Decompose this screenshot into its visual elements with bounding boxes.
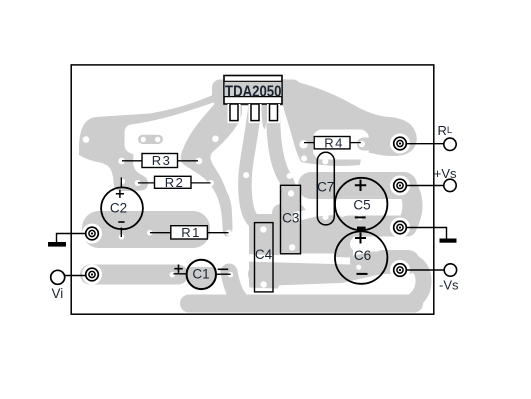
- upper-right pour mass with R4 region: [283, 79, 417, 166]
- -Vs pad: [390, 260, 410, 280]
- solder bar between C5 and C6: [357, 227, 366, 232]
- copper pour traces: [79, 79, 424, 304]
- wire RL: [407, 143, 444, 145]
- trace finger leg3 down to C3: [273, 106, 291, 195]
- capacitor C4: [255, 223, 274, 292]
- R4 left pad notch: [299, 140, 307, 148]
- hump behind TDA2050: [212, 80, 301, 107]
- svg-text:C6: C6: [354, 248, 371, 263]
- terminal RL: [444, 138, 456, 150]
- gnd-right pad: [390, 218, 410, 238]
- -Vs band (slanted): [260, 262, 408, 274]
- left gnd pad: [82, 224, 102, 244]
- wire gnd left: [57, 234, 87, 243]
- trace finger leg2 down to C4: [245, 106, 261, 228]
- svg-text:C7: C7: [317, 180, 334, 195]
- right connector -Vs/bottom: [412, 262, 424, 302]
- svg-text:C3: C3: [282, 210, 299, 225]
- riser right of C1: [229, 272, 243, 302]
- wire Vi: [65, 275, 86, 277]
- middle blob R1 row: [82, 211, 210, 248]
- capacitor C3: [281, 185, 301, 254]
- capacitor C1: [174, 260, 231, 289]
- white clearance channels: [244, 130, 384, 295]
- Z1 region C3-bottom / C4-right: [272, 204, 306, 254]
- wire +Vs: [407, 185, 444, 187]
- terminal +Vs: [444, 179, 456, 191]
- trace blob A upper-left with jumper cutout: [79, 93, 222, 192]
- terminal -Vs: [444, 264, 456, 276]
- right connector +Vs/gnd: [407, 186, 413, 226]
- gnd band: [338, 216, 417, 237]
- svg-text:R3: R3: [152, 153, 171, 168]
- resistor R3: [122, 153, 198, 168]
- capacitor C5: [335, 178, 387, 230]
- RL pad: [390, 134, 410, 154]
- channel inside C6 top: [350, 237, 384, 252]
- svg-text:-Vs: -Vs: [439, 278, 459, 293]
- +Vs pad: [390, 176, 410, 196]
- terminal Vi: [51, 270, 65, 284]
- svg-text:C4: C4: [255, 247, 273, 262]
- svg-text:C5: C5: [353, 197, 370, 212]
- svg-text:TDA2050: TDA2050: [225, 83, 282, 100]
- svg-text:C1: C1: [192, 267, 209, 282]
- TDA2050 IC: [224, 76, 282, 124]
- channel inside C5: [334, 200, 384, 216]
- Vi pad: [82, 265, 102, 285]
- svg-text:R4: R4: [324, 135, 343, 150]
- C6 left interior link: [334, 228, 353, 262]
- wire -Vs: [407, 269, 445, 271]
- svg-text:+Vs: +Vs: [434, 166, 457, 181]
- svg-text:R1: R1: [181, 225, 200, 240]
- bottom band: [189, 295, 414, 313]
- capacitor C2: [101, 178, 143, 238]
- slanted channel under Z1: [244, 254, 350, 265]
- slanted channel above bottom band: [246, 288, 348, 295]
- resistor R1: [150, 225, 229, 240]
- board outline: [71, 65, 434, 314]
- svg-text:RL: RL: [438, 123, 453, 138]
- wire gnd right: [407, 228, 447, 239]
- svg-text:Vi: Vi: [52, 286, 64, 301]
- gnd bar left: [48, 242, 66, 247]
- svg-text:R2: R2: [165, 175, 184, 190]
- capacitor C7: [317, 152, 334, 225]
- C4 column: [249, 214, 279, 292]
- svg-text:C2: C2: [110, 200, 127, 215]
- +Vs band: [298, 172, 417, 199]
- R2 stadium: [114, 176, 148, 191]
- resistor R4: [304, 135, 361, 150]
- R4 isolation cutout: [313, 130, 369, 160]
- jumper link holes: [141, 137, 161, 142]
- R4 right pad tongue: [357, 138, 380, 151]
- wires and terminals: [57, 144, 447, 276]
- capacitor C6: [335, 231, 387, 283]
- jumper link pads in cutout: [138, 135, 163, 144]
- slanted streak left of C7 bottom: [294, 207, 334, 223]
- gnd bar right: [440, 239, 457, 243]
- Vi band: [80, 265, 188, 285]
- trace finger leg1 via R3-right pad down to R1-right pad: [181, 97, 242, 237]
- wedge between leg2 and leg3: [261, 102, 269, 129]
- small white pad holes: [83, 136, 365, 288]
- resistor R2: [138, 175, 211, 190]
- pad donuts with clearance: [82, 134, 410, 285]
- C3 top interior fill: [281, 184, 300, 207]
